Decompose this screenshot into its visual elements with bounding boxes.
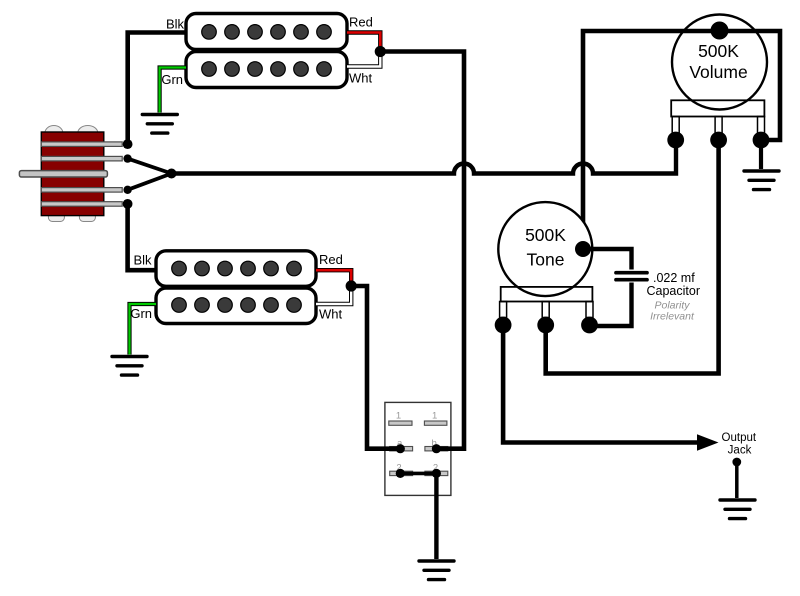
wire: bridge white lead (316, 286, 351, 304)
neck humbucker pole pieces row 1 (202, 25, 332, 40)
wire: volume right lug to ground (759, 140, 763, 169)
node: mini switch lug b (432, 444, 441, 453)
node: mini switch lug 2 right (432, 469, 441, 478)
mini switch row-3 terminal left (390, 471, 413, 475)
mini switch row-3 terminal right (425, 471, 448, 475)
tone pot body (498, 202, 592, 296)
3-way switch body (41, 132, 104, 216)
tone pot base (501, 287, 593, 302)
volume pot lug plates (672, 117, 679, 134)
svg-text:Tone: Tone (527, 250, 565, 270)
neck humbucker pole pieces row 2 (202, 62, 332, 77)
svg-text:1: 1 (432, 411, 437, 422)
svg-text:Blk: Blk (166, 17, 185, 32)
svg-text:Volume: Volume (689, 62, 747, 82)
bridge humbucker coil 1 (156, 251, 316, 286)
node: volume middle lug (710, 132, 727, 149)
node: volume casing junction (711, 22, 729, 40)
node: switch common junction (167, 169, 177, 179)
capacitor C1 plate 1 (616, 271, 647, 275)
ground: volume (744, 171, 779, 190)
svg-text:Polarity: Polarity (654, 299, 690, 311)
node: tone casing junction (575, 241, 591, 257)
svg-text:Output: Output (722, 432, 757, 444)
tone pot lug plates (500, 302, 507, 318)
wire: output jack to ground (735, 462, 739, 498)
bridge humbucker pole pieces row 2 (172, 298, 302, 313)
wire: lug 2 to common junction (128, 159, 172, 174)
mini switch row-1 terminal right (424, 421, 447, 425)
arrowhead to output jack (697, 434, 719, 450)
node: tone middle lug (537, 317, 554, 334)
node: volume left lug (667, 132, 684, 149)
node: switch lug 3 terminal (123, 186, 131, 194)
wire: bridge red lead (316, 270, 351, 286)
svg-text:Red: Red (319, 252, 343, 267)
wire: capacitor to tone right lug (590, 283, 632, 327)
svg-text:500K: 500K (698, 41, 739, 61)
wire: volume casing bus (top) (583, 31, 780, 249)
node: switch lug 1 terminal (123, 139, 133, 149)
mini switch row-1 terminal left (389, 421, 412, 425)
3-way switch lever (19, 171, 107, 177)
capacitor C1 plate 2 (616, 278, 647, 282)
wire: bridge green lead to ground (130, 304, 157, 355)
node: tone right lug (581, 317, 598, 334)
wire: neck green lead to ground (160, 68, 186, 113)
3-way switch top bumps (45, 126, 63, 141)
node: switch lug 4 terminal (123, 199, 133, 209)
wire: lug 4 to bridge black lead (128, 204, 157, 270)
wire: mini switch row-3 link (400, 472, 436, 476)
3-way switch lug 3 (41, 188, 122, 193)
volume pot base (671, 100, 764, 116)
node: switch lug 2 terminal (123, 154, 131, 162)
wire: mini switch to ground (434, 473, 438, 559)
3-way switch lug 2 (41, 156, 122, 161)
wire: bridge junction to mini-switch lug a (351, 286, 400, 449)
node: neck red/white junction (375, 46, 386, 57)
wire: lug 3 to common junction (128, 174, 172, 190)
svg-text:.022 mf: .022 mf (653, 271, 695, 285)
3-way switch lug 4 (41, 202, 122, 207)
svg-text:Wht: Wht (349, 71, 373, 86)
wire: neck red lead (347, 33, 380, 52)
wire: tone left lug to output jack (503, 325, 700, 443)
svg-text:Wht: Wht (319, 307, 343, 322)
node: bridge red/white junction (346, 280, 357, 291)
node: tone left lug (495, 317, 512, 334)
node: mini switch lug 2 left (396, 469, 405, 478)
svg-text:Blk: Blk (133, 253, 152, 268)
wire: neck junction to mini-switch lug b (380, 52, 464, 449)
svg-text:Capacitor: Capacitor (647, 284, 701, 298)
bridge humbucker coil 2 (156, 288, 316, 324)
wire: volume middle lug to tone middle lug (546, 140, 719, 374)
svg-text:500K: 500K (525, 225, 566, 245)
svg-text:Jack: Jack (728, 445, 752, 457)
ground: bridge green (112, 357, 147, 376)
mini switch row-2 terminal left (390, 447, 413, 451)
wire: tone casing to capacitor (583, 249, 632, 270)
neck humbucker coil 2 (186, 52, 347, 88)
mini switch body (385, 402, 451, 495)
3-way switch bottom bumps (48, 208, 64, 222)
svg-text:Red: Red (349, 15, 373, 30)
mini switch row-2 terminal right (425, 447, 448, 451)
wire: neck black lead to switch lug 1 (128, 33, 186, 145)
neck humbucker coil 1 (186, 14, 347, 50)
ground: output jack (720, 500, 755, 519)
wire: switch common to volume left lug (hops over two wires) (172, 140, 677, 174)
node: output jack ground terminal (732, 458, 741, 467)
ground: mini switch (419, 561, 454, 580)
bridge humbucker pole pieces row 1 (172, 261, 302, 276)
node: volume right lug (753, 132, 770, 149)
svg-text:Irrelevant: Irrelevant (650, 311, 695, 323)
svg-text:1: 1 (396, 411, 401, 422)
svg-text:Grn: Grn (130, 306, 152, 321)
3-way switch lug 1 (41, 142, 122, 147)
node: mini switch lug a (396, 444, 405, 453)
ground: neck green (142, 115, 177, 134)
svg-text:Grn: Grn (161, 72, 183, 87)
wire: neck white lead (347, 52, 380, 67)
volume pot body (672, 15, 767, 110)
